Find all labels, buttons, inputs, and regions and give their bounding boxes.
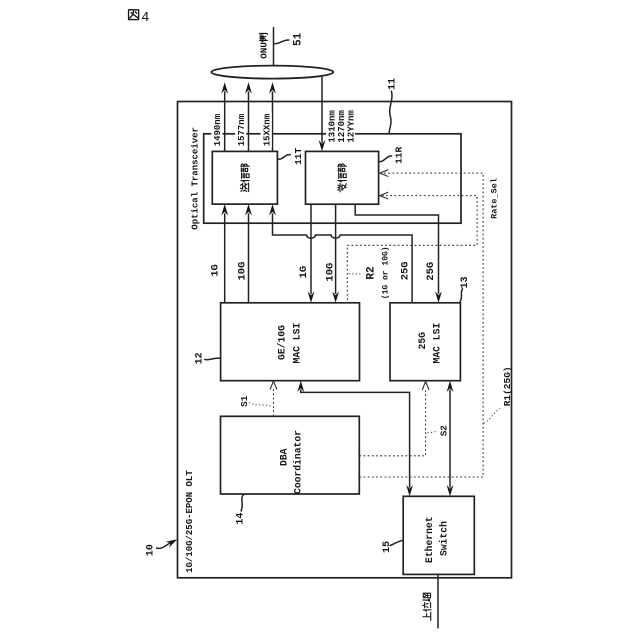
- wire uplink to upper network: [437, 574, 439, 628]
- optical splitter ellipse: [211, 66, 333, 79]
- wire 25G MAC to Ethernet Switch: [449, 390, 451, 488]
- svg-text:1G: 1G: [210, 264, 222, 277]
- svg-text:ONU: ONU: [259, 42, 270, 59]
- label 11R: [393, 146, 404, 163]
- wire GE MAC to Ethernet Switch: [301, 390, 410, 488]
- svg-text:12: 12: [195, 352, 206, 364]
- wavelength label 1310nm: [326, 110, 337, 143]
- wire RX 10G to GE MAC: [335, 204, 337, 294]
- svg-text:MAC LSI: MAC LSI: [432, 323, 443, 364]
- dashed S1 DBA to GE MAC: [273, 389, 275, 416]
- label R1(25G): [502, 366, 513, 406]
- wire TX 1G from GE MAC: [224, 213, 226, 303]
- GE/10G MAC LSI box: [221, 303, 360, 381]
- wire TX 25G from 25G MAC with hops: [273, 213, 413, 303]
- label (1G or 10G): [381, 246, 390, 299]
- svg-text:S2: S2: [439, 425, 450, 437]
- figure number 図4: [129, 10, 150, 26]
- svg-text:25G: 25G: [400, 261, 412, 280]
- leader 11T: [278, 155, 291, 160]
- leader 12: [204, 358, 220, 360]
- outer box 1G/10G/25G-EPON OLT: [178, 102, 512, 578]
- svg-text:S1: S1: [239, 395, 250, 407]
- wire TX 10G from GE MAC: [248, 213, 250, 303]
- leader S1: [249, 403, 272, 407]
- wavelength label 15XXnm: [261, 113, 273, 148]
- svg-text:11T: 11T: [293, 147, 304, 164]
- dashed R2 GE MAC to receiver: [347, 196, 477, 303]
- label 12: [195, 352, 206, 364]
- label 10: [145, 544, 156, 556]
- wire TX up 1490nm: [224, 91, 226, 151]
- svg-text:GE/10G: GE/10G: [277, 325, 288, 360]
- svg-text:MAC LSI: MAC LSI: [291, 323, 302, 364]
- svg-text:10: 10: [145, 544, 156, 556]
- svg-text:Switch: Switch: [438, 521, 449, 556]
- label 15: [382, 541, 393, 553]
- svg-text:Coordinator: Coordinator: [293, 430, 304, 494]
- svg-text:15XXnm: 15XXnm: [263, 113, 273, 146]
- rate label 10G TX: [236, 262, 248, 281]
- svg-text:Optical Transceiver: Optical Transceiver: [190, 127, 200, 230]
- svg-text:1G/10G/25G-EPON OLT: 1G/10G/25G-EPON OLT: [185, 470, 195, 573]
- optical transceiver box: [204, 134, 461, 223]
- dashed S2 DBA to 25G MAC: [359, 389, 425, 455]
- leader 15: [390, 540, 403, 546]
- wire TX up 1577nm: [248, 91, 250, 151]
- wavelength label 1490nm: [211, 113, 223, 148]
- svg-text:13: 13: [460, 276, 471, 288]
- wire to ONU: [273, 27, 275, 66]
- label 51: [292, 32, 304, 46]
- rate label 25G TX: [400, 261, 412, 280]
- svg-text:25G: 25G: [425, 262, 437, 281]
- transmitter box 送信部: [212, 151, 277, 204]
- svg-text:1490nm: 1490nm: [213, 113, 223, 146]
- wavelength label 1577nm: [235, 113, 247, 148]
- svg-text:10G: 10G: [325, 263, 337, 282]
- 25G MAC LSI box: [390, 303, 460, 381]
- receiver box 受信部: [306, 151, 379, 204]
- rate label 25G RX: [425, 262, 437, 281]
- leader arrow 10: [156, 542, 172, 548]
- label R2: [365, 266, 377, 279]
- leader 13: [460, 288, 463, 302]
- svg-text:DBA: DBA: [278, 448, 289, 466]
- svg-text:4: 4: [141, 11, 149, 26]
- leader 14: [241, 495, 244, 512]
- leader R2: [349, 272, 363, 275]
- svg-text:10G: 10G: [236, 262, 248, 281]
- node ONU side label: [259, 33, 270, 58]
- wavelength label 12YYnm: [345, 110, 356, 143]
- label 13: [460, 276, 471, 288]
- label Optical Transceiver: [190, 127, 200, 230]
- label 1G/10G/25G-EPON OLT: [185, 470, 195, 573]
- svg-text:(1G or 10G): (1G or 10G): [381, 246, 390, 299]
- wire RX 25G to 25G MAC: [355, 204, 438, 294]
- leader S2: [428, 431, 439, 433]
- leader 11R: [379, 156, 392, 162]
- svg-text:R2: R2: [365, 266, 377, 279]
- label 上位網: [423, 593, 431, 620]
- svg-text:1577nm: 1577nm: [237, 113, 247, 146]
- svg-text:12YYnm: 12YYnm: [346, 110, 356, 143]
- label S1: [239, 395, 250, 407]
- svg-text:Ethernet: Ethernet: [424, 516, 435, 563]
- svg-text:R1(25G): R1(25G): [502, 366, 513, 406]
- label Rate_Sel: [490, 178, 500, 219]
- svg-text:25G: 25G: [417, 332, 428, 350]
- wire RX 1G to GE MAC: [310, 204, 312, 294]
- wire TX up 15XXnm: [272, 91, 274, 151]
- svg-text:Rate_Sel: Rate_Sel: [490, 178, 500, 219]
- rate label 10G RX: [325, 263, 337, 282]
- DBA Coordinator box: [221, 416, 360, 494]
- label 14: [236, 513, 247, 525]
- label 11T: [293, 147, 304, 164]
- rate label 1G RX: [298, 266, 310, 279]
- rate label 1G TX: [210, 264, 222, 277]
- svg-text:1G: 1G: [298, 266, 310, 279]
- wavelength label 1270nm: [336, 110, 347, 143]
- Ethernet Switch box: [403, 496, 474, 574]
- label 11: [388, 78, 399, 90]
- leader 11: [389, 91, 392, 134]
- svg-text:11R: 11R: [393, 146, 404, 163]
- leader R1: [484, 409, 500, 424]
- svg-text:15: 15: [382, 541, 393, 553]
- leader 51: [274, 40, 289, 44]
- label S2: [439, 425, 450, 437]
- dashed R1 Rate_Sel DBA to receiver: [359, 173, 483, 477]
- svg-text:14: 14: [236, 513, 247, 525]
- svg-text:51: 51: [292, 32, 304, 46]
- svg-text:11: 11: [388, 78, 399, 90]
- wire RX down from splitter: [321, 77, 323, 143]
